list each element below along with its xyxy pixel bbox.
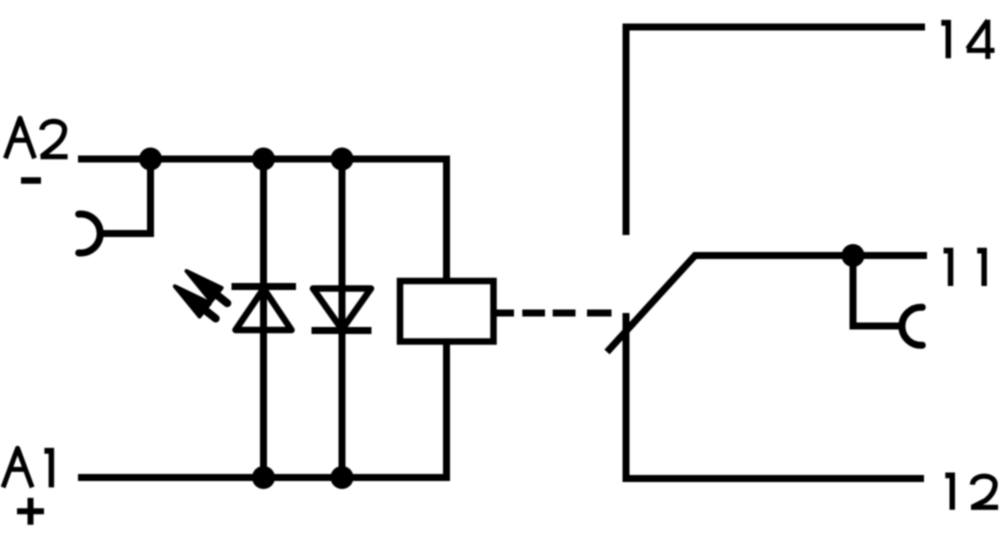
terminal label 14 [941,20,994,59]
wire clamp branch at 11 [853,256,903,327]
mechanical linkage dash 2 [553,310,576,317]
junction node A2 rail / LED branch [252,148,275,171]
clamp contact hook at 11 branch [902,307,922,345]
coil output stub [494,310,515,317]
diode D2 cathode bar [312,327,372,334]
diode D2 triangle (apex down) [313,289,371,330]
terminal label A2 [6,118,68,158]
clamp contact hook at A2 branch [79,214,100,253]
junction node 11 / clamp branch [842,244,865,267]
LED D1 triangle (apex up) [236,289,292,331]
terminal label 11 [944,248,987,286]
wire LED branch (vertical through LED) [260,159,267,478]
terminal label 12 [945,473,998,510]
LED D1 light emission arrow upper [187,271,228,303]
junction node A1 rail / LED branch [252,466,275,489]
LED D1 light emission arrow lower [175,286,216,318]
wire A1 rail from A1 terminal to coil bottom [78,342,447,478]
wire contact 12 (normally closed) [626,313,924,479]
switch blade and wire to terminal 11 [607,256,927,353]
plus polarity mark [17,498,44,525]
junction node A1 rail / diode branch [331,466,354,489]
junction node A2 rail / clamp branch [139,148,162,171]
junction node A2 rail / diode branch [331,148,354,171]
relay coil K1 [400,281,494,342]
mechanical linkage dash 3 [587,310,612,317]
wire A2 rail from A2 terminal to coil top [78,159,447,281]
wire clamp branch (down from A2 rail, left to clamp) [99,159,151,234]
terminal label A1 [3,448,54,488]
mechanical linkage dash 1 [522,310,545,317]
LED D1 cathode bar [232,283,297,290]
minus polarity mark [21,177,41,184]
wire contact 14 (normally open) [626,27,925,235]
wire diode branch (vertical through diode) [339,159,346,478]
